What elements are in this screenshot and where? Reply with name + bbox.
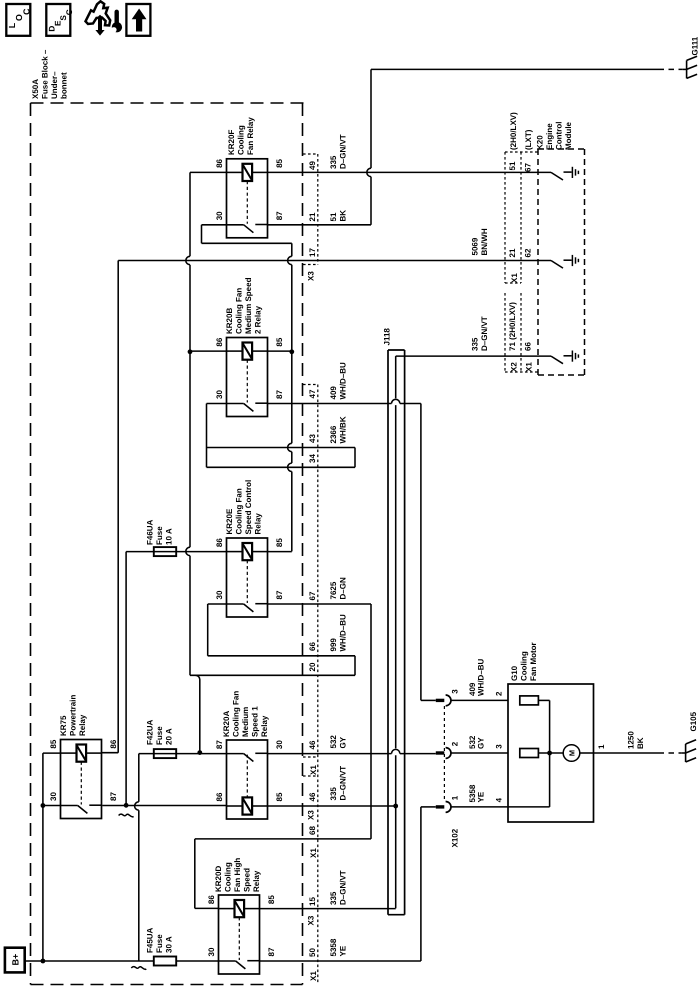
label KR20A Cooling Fan Medium Speed 1 Relay [222, 691, 269, 737]
label 335 D-GN/VT (ECM) [471, 316, 490, 351]
wire F42UA feed [139, 753, 227, 755]
svg-text:49: 49 [308, 161, 317, 170]
svg-text:2: 2 [451, 741, 460, 746]
label F42UA Fuse 20A [146, 719, 174, 745]
svg-text:46: 46 [308, 792, 317, 801]
svg-text:2366: 2366 [329, 425, 338, 443]
relay KR75 Powertrain Relay [49, 739, 118, 818]
svg-text:J118: J118 [383, 328, 392, 346]
label 7625 D-GN [329, 577, 348, 599]
connector X102 pin 3 [436, 695, 451, 706]
junction dot at F42UA wire [197, 750, 202, 755]
svg-text:46: 46 [308, 740, 317, 749]
svg-text:WH/D–BU: WH/D–BU [339, 362, 348, 400]
svg-text:F42UA: F42UA [146, 719, 155, 745]
svg-text:85: 85 [49, 739, 58, 748]
svg-text:17: 17 [308, 248, 317, 257]
svg-text:D–GN/VT: D–GN/VT [339, 134, 348, 169]
bus F42UA down [138, 754, 140, 802]
wire 51 BK [268, 224, 372, 226]
svg-text:335: 335 [471, 337, 480, 351]
wire 5358 YE [260, 960, 421, 962]
svg-text:67: 67 [524, 163, 533, 172]
svg-text:1: 1 [597, 744, 606, 749]
wire J118 to ECM 335 [396, 355, 551, 357]
junction dot B+ bus [41, 959, 46, 964]
wire 409 WH/D-BU [268, 403, 392, 405]
svg-text:M: M [567, 750, 576, 756]
svg-text:86: 86 [215, 538, 224, 547]
svg-text:335: 335 [329, 787, 338, 801]
svg-text:YE: YE [476, 791, 485, 802]
label F45UA Fuse 30A [146, 927, 174, 953]
motor wire to pin1 [580, 752, 594, 754]
splice pack J118 box [388, 350, 405, 915]
motor internal wire bottom [508, 806, 550, 808]
svg-text:30: 30 [207, 947, 216, 956]
svg-text:66: 66 [524, 342, 533, 351]
svg-text:Engine: Engine [545, 123, 554, 150]
wire X102-3 to motor [451, 699, 508, 701]
junction dot J118 [393, 804, 398, 809]
wire pin34 [207, 466, 356, 468]
svg-text:X102: X102 [451, 828, 460, 847]
connector corridor dotted line [303, 385, 318, 985]
svg-text:KR20B: KR20B [225, 308, 234, 334]
junction dot KR75-30 [41, 803, 46, 808]
svg-text:86: 86 [109, 739, 118, 748]
svg-text:F45UA: F45UA [146, 927, 155, 953]
svg-text:20 A: 20 A [165, 728, 174, 745]
label 1250 BK [627, 731, 646, 749]
svg-text:Cooling: Cooling [520, 651, 529, 681]
svg-text:X2: X2 [510, 362, 519, 372]
svg-text:2: 2 [495, 691, 504, 696]
wire pin66 [208, 655, 355, 657]
wire pin20 (wire B) [190, 674, 355, 676]
icon remove-install arrow+wrench [86, 1, 111, 25]
svg-text:86: 86 [215, 337, 224, 346]
junction dot KR20B-85 [289, 349, 294, 354]
motor internal vertical [549, 700, 551, 807]
svg-text:Cooling Fan: Cooling Fan [232, 691, 241, 737]
G105 stub [681, 752, 685, 754]
leg to F42UA with arc [196, 675, 200, 679]
wire pin43 [207, 447, 356, 449]
wire 5358 vertical [420, 807, 422, 961]
svg-text:G105: G105 [689, 711, 698, 731]
svg-text:WH/D–BU: WH/D–BU [339, 614, 348, 652]
svg-text:X1: X1 [510, 273, 519, 283]
G111 stub [683, 68, 687, 70]
svg-text:BN/WH: BN/WH [480, 228, 489, 255]
label KR20D Cooling Fan High Speed Relay [214, 858, 261, 892]
ECM driver (335) [551, 351, 578, 364]
svg-text:X1: X1 [309, 765, 318, 775]
svg-text:Relay: Relay [78, 714, 87, 736]
wire KR20B-86 [190, 350, 227, 352]
svg-text:K20: K20 [536, 135, 545, 150]
svg-text:85: 85 [275, 158, 284, 167]
label 5358 YE [329, 938, 348, 956]
B+ feed wire [25, 960, 219, 962]
break squiggle at B+ wire [131, 967, 146, 970]
fuse F42UA [154, 749, 176, 758]
svg-text:Fuse: Fuse [155, 726, 164, 745]
svg-text:KR20D: KR20D [214, 866, 223, 892]
fuse F45UA [154, 957, 176, 966]
svg-text:85: 85 [275, 337, 284, 346]
wire KR75-87 to KR20A [102, 805, 226, 807]
svg-text:10 A: 10 A [165, 528, 174, 545]
svg-text:C: C [65, 9, 74, 15]
svg-text:Medium Speed: Medium Speed [244, 277, 253, 334]
icon DESC box [46, 4, 70, 36]
svg-text:7625: 7625 [329, 581, 338, 599]
svg-text:15: 15 [308, 897, 317, 906]
label 335 D-GN/VT (15) [329, 870, 348, 905]
bus left coil-feed vertical [189, 172, 191, 256]
wire 7625 D-GN [268, 603, 372, 605]
svg-text:3: 3 [495, 744, 504, 749]
svg-text:335: 335 [329, 155, 338, 169]
svg-text:47: 47 [308, 389, 317, 398]
svg-text:4: 4 [495, 797, 504, 802]
label 335 D-GN/VT [329, 134, 348, 169]
svg-text:Module: Module [564, 121, 573, 150]
svg-text:5358: 5358 [329, 938, 338, 956]
svg-text:Under–: Under– [50, 71, 59, 99]
label KR20F Cooling Fan Relay [227, 117, 255, 155]
relay KR20D Cooling Fan High Speed Relay [207, 895, 276, 974]
svg-text:BK: BK [339, 210, 348, 222]
label 5069 BN/WH [471, 228, 490, 255]
svg-text:51: 51 [508, 161, 517, 170]
svg-text:87: 87 [109, 792, 118, 801]
label 51 BK [329, 210, 348, 222]
svg-text:51: 51 [329, 212, 338, 221]
svg-text:Fuse Block –: Fuse Block – [41, 49, 50, 99]
svg-text:Powertrain: Powertrain [69, 695, 78, 736]
svg-text:30: 30 [215, 211, 224, 220]
relay KR20B Cooling Fan Medium Speed 2 Relay [215, 337, 284, 416]
svg-text:C: C [21, 8, 31, 15]
svg-text:Fan Motor: Fan Motor [529, 642, 538, 681]
svg-text:X3: X3 [307, 915, 316, 925]
ECM driver (5069) [551, 255, 578, 268]
junction dot KR20B-86 [188, 349, 193, 354]
wire pin 68 horizontal [195, 838, 371, 840]
svg-text:21: 21 [308, 212, 317, 221]
fuse F46UA [154, 547, 176, 556]
motor M circle [563, 745, 580, 762]
svg-text:Cooling: Cooling [237, 125, 246, 155]
svg-text:(2H0/LXV): (2H0/LXV) [509, 112, 518, 150]
relay KR20F Cooling Fan Relay [215, 158, 284, 237]
svg-text:Speed Control: Speed Control [244, 480, 253, 535]
svg-text:L: L [7, 22, 17, 28]
junction dot KR75-87 bus [124, 803, 129, 808]
svg-text:50: 50 [308, 948, 317, 957]
ECM pin columns [505, 152, 538, 372]
jumper 2366 WH/BK [354, 448, 356, 468]
svg-text:GY: GY [339, 736, 348, 748]
svg-text:X50A: X50A [31, 79, 40, 99]
ECM driver (fan relay) [551, 167, 578, 180]
svg-text:30: 30 [275, 740, 284, 749]
svg-text:30: 30 [215, 590, 224, 599]
svg-text:GY: GY [476, 737, 485, 749]
svg-text:WH/BK: WH/BK [339, 416, 348, 443]
connector X3 pin box (49/21/17) [303, 154, 318, 265]
icon LOC box [6, 4, 30, 36]
svg-text:409: 409 [329, 386, 338, 400]
svg-text:Cooling: Cooling [224, 862, 233, 892]
wire pin15 to J118 [260, 908, 396, 910]
svg-text:87: 87 [215, 740, 224, 749]
svg-text:KR75: KR75 [59, 715, 68, 736]
wire 7625 vertical [370, 604, 372, 839]
svg-text:21: 21 [508, 248, 517, 257]
svg-text:X1: X1 [525, 362, 534, 372]
svg-text:Fan Relay: Fan Relay [246, 117, 255, 155]
motor internal wire top [538, 699, 549, 701]
svg-text:D–GN/VT: D–GN/VT [339, 870, 348, 905]
wire 51BK vertical to top [370, 69, 372, 168]
label X50A Fuse Block - Underbonnet [31, 49, 69, 99]
svg-text:3: 3 [451, 689, 460, 694]
wire KR75-30 [43, 805, 61, 807]
label 409 WH/D-BU (X102) [468, 658, 486, 696]
B+ box [5, 948, 25, 973]
svg-text:KR20A: KR20A [222, 711, 231, 737]
svg-text:1250: 1250 [627, 731, 636, 749]
wire KR20E-85 [268, 551, 292, 553]
svg-text:D–GN/VT: D–GN/VT [480, 316, 489, 351]
svg-text:F46UA: F46UA [146, 519, 155, 545]
svg-text:KR20E: KR20E [225, 508, 234, 534]
svg-text:Cooling Fan: Cooling Fan [235, 288, 244, 334]
wire KR20F-86 feed [190, 171, 227, 173]
wire KR20B-30 down [207, 403, 227, 405]
label 532 GY (X102) [468, 735, 486, 749]
svg-text:D–GN/VT: D–GN/VT [339, 766, 348, 801]
wire KR75 coil left corner [43, 752, 61, 754]
svg-text:5069: 5069 [471, 237, 480, 255]
svg-text:WH/D–BU: WH/D–BU [476, 658, 485, 696]
connector X102 pin 1 [436, 802, 451, 813]
svg-text:Speed 1: Speed 1 [251, 706, 260, 737]
svg-text:62: 62 [524, 248, 533, 257]
label 2366 WH/BK [329, 416, 348, 443]
svg-text:X3: X3 [307, 271, 316, 281]
svg-text:86: 86 [207, 895, 216, 904]
svg-text:X3: X3 [307, 810, 316, 820]
svg-text:86: 86 [215, 158, 224, 167]
relay KR20A Cooling Fan Medium Speed 1 Relay [215, 740, 284, 819]
svg-text:20: 20 [308, 662, 317, 671]
svg-text:87: 87 [275, 590, 284, 599]
svg-text:999: 999 [329, 638, 338, 652]
label KR20E Cooling Fan Speed Control Relay [225, 480, 263, 535]
svg-text:Relay: Relay [254, 513, 263, 535]
label F46UA Fuse 10A [146, 519, 174, 545]
label 409 WH/D-BU [329, 362, 348, 400]
ground G105 [686, 711, 698, 762]
svg-text:66: 66 [308, 642, 317, 651]
svg-text:30: 30 [49, 792, 58, 801]
svg-text:Cooling Fan: Cooling Fan [235, 488, 244, 534]
jumper 999 WH/D-BU [354, 656, 356, 676]
label KR20B Cooling Fan Medium Speed 2 Relay [225, 277, 263, 334]
svg-text:G10: G10 [510, 665, 519, 681]
svg-text:1: 1 [451, 795, 460, 800]
svg-text:YE: YE [339, 945, 348, 956]
icon up-arrow box [126, 4, 150, 36]
motor internal resistor mid [520, 749, 539, 758]
connector X102 pin 2 [436, 748, 451, 759]
svg-text:Fan High: Fan High [233, 858, 242, 892]
svg-text:2 Relay: 2 Relay [254, 305, 263, 334]
svg-text:85: 85 [275, 538, 284, 547]
svg-text:Control: Control [555, 122, 564, 150]
wire KR20E-30 down [208, 603, 227, 605]
label G10 Cooling Fan Motor [510, 642, 538, 681]
X102 body dashed [443, 706, 445, 801]
svg-text:Fuse: Fuse [155, 526, 164, 545]
J118 central bus [395, 356, 397, 398]
svg-text:Relay: Relay [252, 870, 261, 892]
svg-text:BK: BK [636, 737, 645, 749]
wire KR20F-30 to bus292 [202, 224, 227, 226]
wire F46UA feed [126, 551, 226, 553]
svg-text:KR20F: KR20F [227, 130, 236, 155]
wire 532 GY [268, 753, 392, 755]
svg-text:87: 87 [267, 947, 276, 956]
svg-text:bonnet: bonnet [60, 72, 69, 99]
svg-text:87: 87 [275, 211, 284, 220]
label 532 GY [329, 735, 348, 749]
svg-text:335: 335 [329, 891, 338, 905]
label 999 WH/D-BU [329, 614, 348, 652]
wire 5069 BN/WH [118, 260, 551, 262]
motor internal wire mid [538, 752, 563, 754]
bus KR75-86 up [117, 261, 119, 753]
svg-text:532: 532 [329, 735, 338, 749]
svg-text:67: 67 [308, 591, 317, 600]
svg-text:B+: B+ [11, 954, 21, 966]
wire X102-2 to motor [451, 752, 508, 754]
svg-text:G111: G111 [691, 36, 700, 55]
svg-text:85: 85 [267, 895, 276, 904]
wire 409 vertical [420, 404, 422, 701]
motor internal dot [547, 751, 552, 756]
fuse block X50A outline [31, 103, 306, 985]
svg-text:(LXT): (LXT) [524, 129, 533, 150]
wire 335 to J118 [268, 805, 396, 807]
svg-text:X1: X1 [309, 848, 318, 858]
wire to KR20D-86 [194, 839, 196, 909]
svg-text:85: 85 [275, 792, 284, 801]
wire 335 D-GN/VT (KR20F-85 to ECM) [268, 171, 552, 173]
svg-text:Speed: Speed [243, 868, 252, 892]
svg-text:Fuse: Fuse [155, 934, 164, 953]
label 335 D-GN/VT (46) [329, 766, 348, 801]
wire KR20B-85 [268, 350, 292, 352]
svg-text:X1: X1 [309, 971, 318, 981]
wire 1250 BK [594, 752, 659, 754]
svg-text:87: 87 [275, 390, 284, 399]
B+ bus vertical [42, 753, 44, 961]
ECM header labels [509, 112, 573, 150]
wire X102-1 to motor [451, 806, 508, 808]
wire to G111 [371, 68, 659, 70]
svg-text:Relay: Relay [260, 715, 269, 737]
svg-text:43: 43 [308, 434, 317, 443]
svg-text:Medium: Medium [241, 707, 250, 737]
svg-text:71 (2H0/LXV): 71 (2H0/LXV) [508, 302, 517, 351]
ECM K20 box [538, 149, 585, 375]
label KR75 Powertrain Relay [59, 695, 87, 736]
svg-text:30: 30 [215, 390, 224, 399]
svg-text:D–GN: D–GN [339, 577, 348, 599]
ground G111 [687, 36, 700, 78]
relay KR20E Cooling Fan Speed Control Relay [215, 538, 284, 617]
stub KR75-86 [102, 752, 119, 754]
bus 292 vertical [291, 243, 293, 256]
svg-text:34: 34 [308, 454, 317, 463]
motor G10 box [508, 684, 594, 822]
svg-text:30 A: 30 A [165, 936, 174, 953]
motor internal resistor top [520, 696, 539, 705]
label 5358 YE (X102) [468, 784, 486, 802]
svg-text:86: 86 [215, 792, 224, 801]
bus F46UA down [125, 552, 127, 806]
break squiggle below junction [119, 814, 134, 817]
svg-text:68: 68 [308, 826, 317, 835]
